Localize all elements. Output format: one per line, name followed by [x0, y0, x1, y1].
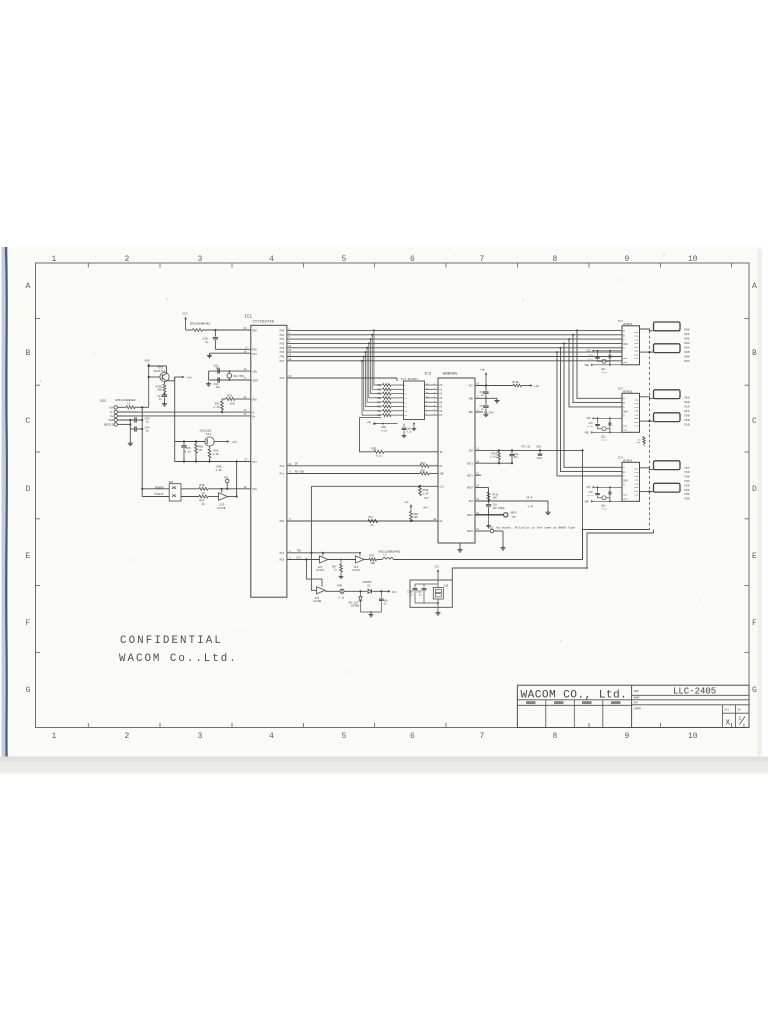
svg-text:X1A: X1A	[634, 335, 639, 338]
capacitor C16 bypass IC5	[597, 417, 599, 419]
svg-text:2.2K: 2.2K	[216, 469, 223, 472]
svg-text:L2: L2	[127, 403, 131, 406]
grid row tick marks	[36, 319, 750, 653]
svg-text:1: 1	[52, 255, 57, 264]
capacitor C28	[214, 330, 216, 337]
power VCC arrow into regulator box	[437, 570, 439, 581]
svg-text:EMI1210BB1A4B2: EMI1210BB1A4B2	[379, 551, 401, 554]
svg-text:6: 6	[410, 732, 415, 741]
svg-text:HC4051: HC4051	[623, 323, 633, 326]
wire bus P30	[287, 329, 622, 331]
svg-text:W8B005: W8B005	[443, 373, 458, 377]
wire WOUT	[475, 487, 489, 489]
svg-text:R34: R34	[377, 401, 382, 404]
svg-text:12: 12	[244, 368, 248, 371]
svg-text:U33: U33	[100, 399, 106, 403]
svg-text:4: 4	[269, 255, 274, 264]
svg-text:8.1u: 8.1u	[602, 508, 608, 511]
svg-text:No mount. Polislon is the same: No mount. Polislon is the same as BH00 T…	[497, 526, 576, 530]
svg-text:VDD: VDD	[145, 360, 150, 363]
buffer IC5 HC126 first	[320, 556, 329, 563]
svg-text:P35: P35	[280, 351, 285, 354]
svg-text:Y08: Y08	[684, 413, 690, 417]
svg-text:X0A: X0A	[634, 467, 639, 470]
transistor T53 body	[160, 372, 169, 381]
resistor bias IC5	[608, 422, 611, 425]
capacitor Q11 IC4 circle	[602, 496, 606, 500]
svg-text:P37: P37	[280, 360, 285, 363]
resistor R14 10K	[487, 492, 490, 500]
wire DC from IC1 P12	[287, 465, 420, 467]
svg-text:SH: SH	[738, 709, 742, 712]
resistor R36 on IN wire	[374, 450, 384, 453]
wire bus P35	[287, 351, 622, 353]
svg-text:Ref: Ref	[425, 497, 430, 500]
svg-text:R1B: R1B	[537, 446, 542, 449]
wire INT long net to right	[475, 449, 583, 451]
coil loop IC5 upper	[654, 390, 681, 399]
wire IC3 to lower coil	[640, 351, 654, 353]
svg-text:VDD: VDD	[623, 428, 628, 431]
capacitor C1B IC7 decoupling	[403, 424, 405, 427]
svg-text:INT: INT	[469, 450, 474, 453]
svg-text:1CB: 1CB	[444, 584, 449, 587]
wire CLK vertical to TXD	[310, 486, 312, 553]
svg-text:8: 8	[553, 255, 558, 264]
IC IC7 HC4051 mux body	[404, 381, 425, 420]
svg-text:X10: X10	[684, 404, 690, 408]
svg-text:0.1u: 0.1u	[407, 431, 413, 434]
svg-text:XOUT: XOUT	[252, 379, 259, 382]
svg-text:Y10: Y10	[684, 422, 690, 426]
wire +5V with ferrite bead	[117, 406, 126, 408]
svg-text:tmp: tmp	[512, 515, 517, 518]
wire T41 output arrow +Vh	[214, 441, 228, 443]
wire T53 base	[149, 376, 160, 378]
svg-text:5: 5	[342, 255, 347, 264]
wire D1 to VCC arrow	[373, 590, 389, 592]
coil loop IC4 upper	[654, 461, 681, 470]
svg-text:X2A: X2A	[634, 406, 639, 409]
svg-text:+Vh: +Vh	[187, 376, 192, 380]
svg-text:P32: P32	[280, 338, 285, 341]
svg-text:E: E	[752, 552, 757, 561]
capacitor C47 below RT1	[163, 392, 165, 394]
svg-text:COMPO: COMPO	[634, 708, 642, 711]
svg-text:1u: 1u	[159, 398, 163, 401]
svg-text:16: 16	[244, 327, 248, 330]
svg-text:X0A: X0A	[634, 398, 639, 401]
svg-text:Y01: Y01	[684, 492, 690, 496]
svg-text:OuT: OuT	[297, 556, 302, 559]
svg-text:P34: P34	[280, 347, 285, 350]
svg-text:HC126: HC126	[353, 569, 361, 572]
svg-text:VEE: VEE	[585, 364, 590, 367]
svg-text:+Vp: +Vp	[480, 369, 485, 372]
resistor R35	[420, 472, 429, 475]
svg-text:CY7C63745: CY7C63745	[253, 321, 275, 325]
wire bus P34	[287, 347, 622, 349]
svg-text:X3A: X3A	[634, 342, 639, 345]
svg-text:D: D	[26, 485, 31, 494]
svg-text:X04: X04	[684, 345, 690, 349]
svg-text:R32: R32	[377, 393, 382, 396]
svg-text:P21: P21	[252, 353, 257, 356]
wire coil return path outer	[583, 530, 650, 560]
svg-text:57: 57	[245, 459, 249, 462]
wire P15 OUT from IC1	[287, 559, 320, 561]
svg-text:X01: X01	[684, 332, 690, 336]
svg-text:SCL: SCL	[725, 709, 730, 712]
wire CLK into IC2	[311, 485, 438, 487]
wire vertical bus x564	[564, 343, 622, 467]
paper bottom shadow band	[0, 757, 768, 774]
drawing border frame	[36, 263, 750, 728]
capacitor C63 on GND pin	[117, 419, 134, 421]
junction at C28	[214, 329, 216, 331]
svg-text:SOUT: SOUT	[467, 514, 473, 517]
wire P10 to IC2 E0	[287, 520, 438, 522]
resistor RT1 68K below T53	[164, 382, 166, 384]
svg-text:RX VDD: RX VDD	[295, 470, 305, 473]
capacitor C18 3300p	[488, 501, 490, 504]
svg-text:Z20: Z20	[488, 526, 493, 529]
svg-text:F: F	[26, 619, 31, 628]
resistor R46 bead	[340, 589, 344, 593]
wire zener cap common	[360, 611, 381, 613]
svg-text:A: A	[752, 282, 757, 291]
IC2 REF pin	[475, 411, 483, 413]
capacitor C30B	[423, 584, 425, 588]
coil loop IC3 lower	[654, 344, 681, 353]
svg-text:2.2K: 2.2K	[213, 453, 220, 456]
svg-text:VCC: VCC	[469, 385, 474, 388]
ground IC2 bottom stub	[459, 543, 461, 548]
capacitor C64 on shield pin	[117, 423, 130, 425]
svg-text:R37: R37	[377, 414, 382, 417]
svg-text:VCC: VCC	[183, 313, 189, 316]
wire coil return path inner	[452, 530, 653, 569]
enable wire buffer2	[359, 553, 361, 556]
resistor bias IC3	[608, 355, 611, 358]
svg-text:GND: GND	[109, 419, 114, 422]
capacitor C29B	[414, 584, 416, 588]
svg-text:1.04: 1.04	[423, 492, 429, 495]
svg-text:1u: 1u	[146, 421, 150, 424]
svg-text:8.1u: 8.1u	[602, 371, 608, 374]
title block vertical divider	[631, 685, 633, 727]
wire vertical bus x573	[573, 335, 622, 403]
svg-text:X7A: X7A	[634, 357, 639, 360]
junction dots at right vertical taps	[576, 329, 578, 331]
svg-text:D+: D+	[252, 415, 256, 418]
wire between buffers	[328, 559, 356, 561]
junction dots on TXD enable taps	[310, 552, 312, 554]
svg-text:X08: X08	[684, 395, 690, 399]
junction IC4 bias node	[609, 486, 611, 488]
svg-text:R35: R35	[377, 406, 382, 409]
wire bus P31	[287, 334, 622, 336]
svg-text:SBLP: SBLP	[511, 512, 518, 515]
svg-text:OUT2: OUT2	[467, 474, 473, 477]
resistor R6A below T41	[209, 446, 211, 449]
wire IC3 to upper coil	[640, 329, 654, 331]
svg-text:10B: 10B	[371, 562, 376, 565]
svg-text:P20: P20	[252, 349, 257, 352]
capacitor C65	[183, 440, 185, 442]
svg-text:R30: R30	[377, 384, 382, 387]
svg-text:R33: R33	[377, 397, 382, 400]
capacitor C16 bypass IC3	[597, 350, 599, 352]
svg-text:VCC: VCC	[435, 566, 440, 569]
svg-text:X6A: X6A	[634, 490, 639, 493]
svg-text:3: 3	[198, 732, 203, 741]
svg-text:470a: 470a	[537, 457, 543, 460]
svg-text:R11: R11	[369, 516, 374, 519]
svg-text:8.1u: 8.1u	[602, 439, 608, 442]
svg-text:R36: R36	[377, 410, 382, 413]
wire P14 TXD from IC1	[287, 552, 360, 554]
svg-text:6D1: 6D1	[637, 441, 642, 444]
buffer IC5 HC126 second	[356, 556, 365, 563]
svg-text:GND: GND	[469, 398, 474, 401]
svg-text:C: C	[752, 417, 757, 426]
svg-text:EMI1210BB1B2: EMI1210BB1B2	[116, 399, 136, 402]
svg-text:10K: 10K	[493, 497, 498, 500]
svg-text:F: F	[752, 619, 757, 628]
svg-text:+5V: +5V	[109, 407, 114, 410]
svg-text:D: D	[752, 485, 757, 494]
ground T53 bias	[164, 397, 166, 401]
svg-text:2: 2	[125, 732, 130, 741]
svg-text:R35: R35	[421, 470, 426, 473]
svg-text:X09: X09	[684, 400, 690, 404]
coil loop IC4 lower	[654, 483, 681, 492]
svg-text:1u: 1u	[205, 341, 209, 344]
svg-text:10: 10	[688, 255, 698, 264]
svg-text:HC126: HC126	[317, 569, 325, 572]
wire caps common in box	[415, 583, 438, 585]
svg-text:C: C	[26, 417, 31, 426]
resistor R48	[181, 488, 199, 490]
svg-text:HC12B: HC12B	[218, 507, 226, 510]
svg-text:VEE: VEE	[585, 500, 590, 503]
svg-text:Y07: Y07	[684, 466, 690, 470]
wire IC4 to upper coil	[640, 468, 654, 470]
svg-text:1K: 1K	[202, 492, 206, 495]
svg-text:HC13B: HC13B	[314, 600, 322, 603]
svg-text:SHIELD: SHIELD	[104, 424, 114, 427]
svg-text:X3A: X3A	[634, 410, 639, 413]
svg-text:VCC: VCC	[587, 486, 592, 489]
svg-text:R45: R45	[370, 555, 375, 558]
svg-text:10u: 10u	[216, 367, 221, 370]
svg-text:CONFIDENTIAL: CONFIDENTIAL	[120, 635, 223, 647]
resistor RT1B on VCC wire	[513, 384, 522, 387]
ferrite bead L1	[193, 329, 203, 332]
svg-text:X5A: X5A	[634, 350, 639, 353]
svg-text:D-: D-	[110, 411, 114, 414]
diode D1 1S5355	[368, 589, 372, 593]
svg-text:LLC-2405: LLC-2405	[673, 687, 716, 697]
wire XOUT	[209, 379, 251, 381]
ground IC7 second	[413, 424, 415, 427]
svg-text:+Vh: +Vh	[232, 440, 237, 444]
resistor R65	[195, 440, 197, 442]
svg-text:B: B	[26, 349, 31, 358]
svg-text:IC1: IC1	[245, 316, 253, 320]
svg-text:D-: D-	[252, 412, 256, 415]
resistor R11 on P10 wire	[368, 519, 378, 522]
svg-text:R4B: R4B	[338, 585, 343, 588]
ground USB shield	[129, 429, 131, 441]
wire bus P36	[287, 356, 622, 358]
ground at P21 wire	[207, 353, 212, 358]
resistor R45 after buffer	[364, 559, 369, 561]
svg-text:EMI2080B04B2: EMI2080B04B2	[190, 322, 210, 325]
wire P13 from IC1 to IC7 enable	[287, 377, 397, 379]
dashed shield line right column	[649, 331, 651, 530]
svg-text:P11: P11	[280, 473, 285, 476]
svg-text:9: 9	[625, 255, 630, 264]
svg-text:T41: T41	[206, 433, 212, 436]
ground crystal caps	[206, 382, 211, 387]
wire R48 to IC1 P16	[208, 488, 251, 490]
power +Vp arrow above IC2	[485, 373, 487, 386]
transistor T41 body	[205, 437, 214, 446]
resistor R47 lower row	[181, 496, 199, 498]
svg-text:X2A: X2A	[634, 338, 639, 341]
svg-text:R3B: R3B	[372, 448, 377, 451]
capacitor C01 on XIN	[218, 369, 219, 374]
svg-text:8.1u: 8.1u	[339, 596, 345, 599]
svg-text:1: 1	[743, 723, 746, 729]
capacitor C11	[485, 394, 487, 404]
svg-text:S1A: S1A	[469, 500, 474, 503]
wire T53 collector to VDD rail	[166, 366, 168, 374]
wire C28 to P20 pin	[214, 340, 216, 349]
svg-text:1A: 1A	[371, 524, 375, 527]
svg-text:X4A: X4A	[634, 346, 639, 349]
wire GND to P21 pin	[210, 352, 251, 354]
wire IC8 out to ground	[437, 599, 439, 611]
resistor R1B pull up on E0	[410, 520, 412, 522]
IC IC4 HC4051 mux body	[622, 462, 640, 501]
svg-text:P12: P12	[280, 465, 285, 468]
IC2 VCC pin wire and +Vp arrow	[475, 385, 513, 387]
svg-text:8.1u: 8.1u	[588, 425, 594, 428]
scan speckles	[40, 250, 701, 742]
svg-text:8.1u: 8.1u	[185, 450, 192, 453]
ferrite bead L3 coil	[383, 558, 394, 560]
svg-text:WACOM Co..Ltd.: WACOM Co..Ltd.	[119, 653, 238, 665]
grid column tick marks	[88, 263, 731, 728]
svg-text:R4B: R4B	[200, 484, 205, 487]
svg-text:VCC: VCC	[392, 591, 397, 594]
svg-text:8.1u: 8.1u	[376, 454, 382, 457]
svg-text:7: 7	[480, 255, 485, 264]
svg-text:B: B	[752, 349, 757, 358]
ground C10 C11	[485, 408, 487, 412]
svg-text:10K: 10K	[414, 516, 419, 519]
svg-text:VDD: VDD	[623, 497, 628, 500]
svg-text:1.2K: 1.2K	[213, 406, 220, 409]
wire branch down to buffer3 enable	[306, 560, 322, 587]
svg-text:IC7 HC4051: IC7 HC4051	[401, 378, 418, 381]
svg-text:8.1u: 8.1u	[588, 358, 594, 361]
svg-text:RT2 1K: RT2 1K	[522, 446, 531, 449]
svg-text:INH: INH	[623, 343, 628, 346]
svg-text:Y05: Y05	[684, 475, 690, 479]
title block outer box	[517, 685, 749, 728]
svg-text:IC2: IC2	[424, 373, 432, 377]
svg-text:9: 9	[625, 732, 630, 741]
svg-text:X05: X05	[684, 350, 690, 354]
IC IC8 regulator body	[433, 588, 443, 600]
resistor RT1A hanging on INT	[498, 449, 500, 451]
svg-text:GND: GND	[623, 493, 628, 496]
wire IC5 to lower coil	[640, 420, 654, 422]
svg-text:X2A: X2A	[634, 475, 639, 478]
svg-text:GND: GND	[623, 424, 628, 427]
svg-text:X7A: X7A	[634, 494, 639, 497]
svg-text:14: 14	[244, 413, 248, 416]
coil loop IC3 upper	[654, 322, 681, 331]
buffer IC9 HC126	[208, 496, 219, 498]
wire box to return net	[451, 568, 453, 580]
ground IC7 decoupling	[403, 431, 405, 434]
junction IC3 bias node	[609, 350, 611, 352]
wire D- from USB	[118, 411, 251, 413]
svg-text:HC4051: HC4051	[623, 460, 633, 463]
svg-text:X00: X00	[684, 327, 690, 331]
wire bus P33	[287, 342, 622, 344]
svg-text:+Vp: +Vp	[367, 421, 372, 424]
svg-text:2TH2V5: 2TH2V5	[154, 493, 164, 496]
svg-text:GP.B: GP.B	[527, 496, 533, 499]
svg-text:11: 11	[244, 396, 248, 399]
power +Vp arrow above R1B	[410, 505, 412, 512]
svg-text:68K: 68K	[157, 389, 162, 392]
svg-text:X6A: X6A	[634, 353, 639, 356]
svg-text:Y03: Y03	[684, 483, 690, 487]
enable wire buffer1	[322, 553, 324, 556]
svg-text:XIN: XIN	[252, 371, 257, 374]
svg-text:10: 10	[688, 732, 698, 741]
capacitor 470 on INT	[539, 449, 541, 451]
svg-text:X4A: X4A	[634, 482, 639, 485]
ground C18 leg	[488, 515, 490, 524]
svg-text:18: 18	[244, 350, 248, 353]
wire VBUS rail down to power switch	[141, 407, 143, 489]
svg-text:VCC: VCC	[587, 350, 592, 353]
svg-text:VDD: VDD	[623, 361, 628, 364]
svg-text:1S53BB: 1S53BB	[351, 605, 360, 608]
IC IC3 HC4051 mux body	[622, 326, 640, 365]
svg-text:RT1B: RT1B	[513, 381, 520, 384]
switch SW1 body	[169, 484, 181, 501]
svg-text:DOUT: DOUT	[467, 530, 473, 533]
wire IC4 to lower coil	[640, 491, 654, 493]
svg-text:3: 3	[198, 255, 203, 264]
wire D- from connector	[117, 411, 137, 413]
paper left edge blue-gray stripe	[2, 247, 9, 757]
wire P17	[175, 461, 251, 463]
title block stamp row	[517, 699, 631, 701]
wire VDD from IC1 P11	[287, 473, 420, 475]
resistor R6D below group2	[643, 437, 646, 444]
svg-text:+Vp: +Vp	[534, 385, 539, 388]
